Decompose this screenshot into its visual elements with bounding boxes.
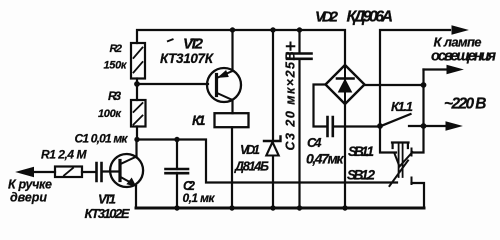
capacitor C3 (electrolytic) — [287, 54, 312, 59]
node K1.1 right — [421, 123, 427, 129]
arrow lamp line 2 — [447, 65, 462, 73]
wire SB1.1 left riser — [380, 126, 396, 153]
wire C2 top branch — [176, 140, 178, 170]
svg-text:КД906А: КД906А — [347, 8, 394, 25]
wire K1 bottom to common rail — [231, 127, 233, 207]
capacitor C2 — [166, 169, 189, 173]
wire VD1 branch top — [272, 30, 274, 141]
wire C4 right plate to K1.1 left terminal — [333, 125, 380, 127]
node K1 bottom on rail — [229, 205, 234, 210]
svg-text:КТ3107К: КТ3107К — [160, 51, 215, 66]
wire C3 branch bottom — [298, 60, 300, 208]
wire bridge left corner to C4 left plate — [314, 85, 328, 127]
switch SB1.1 arm — [395, 152, 413, 167]
wire 220V arrow lead — [424, 125, 447, 127]
wire C3 branch top — [298, 30, 300, 53]
svg-text:R2: R2 — [110, 43, 123, 55]
svg-text:VT1: VT1 — [98, 191, 116, 206]
wire R2 to R3 through node B — [136, 79, 138, 101]
svg-text:двери: двери — [10, 191, 47, 205]
svg-text:SВ1.1: SВ1.1 — [348, 144, 374, 159]
wire VD1 branch bottom — [272, 156, 274, 207]
node collector/R3 — [134, 137, 139, 142]
svg-text:КТ3102Е: КТ3102Е — [85, 206, 130, 221]
svg-text:R1 2,4 М: R1 2,4 М — [41, 147, 88, 161]
wire bridge bottom corner to common rail — [344, 104, 346, 207]
svg-text:100к: 100к — [98, 108, 122, 120]
resistor R1 — [55, 167, 82, 178]
zener diode VD1 — [264, 137, 281, 156]
capacitor C4 — [328, 117, 333, 136]
node C2 bottom on rail — [174, 205, 179, 210]
wire R1 to C1 — [82, 171, 96, 173]
node VD1 on rail — [270, 27, 275, 32]
wire K1.1 right terminal — [409, 125, 424, 127]
relay coil K1 — [215, 113, 249, 127]
wire C1 to VT1 base — [103, 170, 119, 172]
node C3 bottom on rail — [297, 205, 302, 210]
wire top rail right segment (down to K1.1 node, up and right to lamp arrow) — [380, 30, 450, 126]
svg-text:Д814Б: Д814Б — [234, 160, 269, 174]
node C3 on rail — [297, 27, 302, 32]
arrow to door handle — [17, 167, 34, 176]
wire R3 bottom to collector node, across and down to SB1.2 (line A) — [137, 127, 397, 183]
svg-text:VD1: VD1 — [240, 143, 260, 157]
wire VT2 collector to relay K1 — [231, 100, 233, 114]
svg-text:С3 20 мк×25В: С3 20 мк×25В — [284, 52, 298, 151]
bridge rectifier VD2 — [326, 65, 365, 104]
svg-text:К1.1: К1.1 — [391, 99, 413, 114]
node VD1 bottom on rail — [270, 205, 275, 210]
tick before VT2 — [167, 39, 174, 42]
svg-text:0,47мк: 0,47мк — [306, 151, 344, 167]
svg-text:150к: 150к — [104, 60, 128, 72]
node dots — [134, 27, 426, 210]
svg-text:К1: К1 — [192, 113, 206, 128]
node K1.1 left — [377, 123, 383, 129]
wire top rail left segment (R2 top to bridge top corner) — [137, 30, 345, 65]
svg-text:К ручке: К ручке — [8, 178, 52, 192]
pushbutton actuator stems — [399, 143, 403, 177]
node VT2 emitter on rail — [230, 27, 235, 32]
wire C2 bottom branch — [176, 173, 178, 207]
wire VT1 collector riser — [135, 140, 137, 158]
wire 220V branch to arrow — [424, 68, 449, 70]
relay contact K1.1 arm — [381, 114, 411, 126]
node C2 top — [174, 137, 179, 142]
wire door-handle lead to R1 — [33, 171, 55, 173]
arrow 220V line — [446, 122, 461, 130]
capacitor C1 — [97, 163, 102, 181]
switch SB1.2 arm — [390, 161, 409, 187]
node mains upper — [421, 82, 427, 88]
svg-text:С4: С4 — [307, 135, 322, 150]
resistor R3 — [131, 100, 146, 127]
svg-text:С1 0,01 мк: С1 0,01 мк — [75, 131, 129, 145]
wire mains node vertical branch — [422, 70, 424, 127]
transistor VT2 — [207, 68, 241, 102]
pushbutton actuator T-head — [392, 143, 409, 149]
resistor R2 — [131, 43, 145, 79]
wire VT2 emitter to top rail — [231, 30, 233, 71]
wire bridge right corner to mains node — [365, 84, 424, 86]
switch SB1.1 fixed contact hook — [411, 149, 413, 156]
svg-text:R3: R3 — [108, 89, 121, 103]
svg-text:освещения: освещения — [431, 48, 496, 64]
transistor VT1 — [110, 154, 143, 187]
arrow lamp line 1 — [452, 26, 467, 34]
svg-text:SВ1.2: SВ1.2 — [347, 167, 375, 182]
svg-text:~220 В: ~220 В — [444, 96, 487, 113]
wire VT1 emitter drop to rail — [135, 187, 137, 208]
switch SB1.2 fixed contact hook — [411, 178, 413, 185]
svg-text:VT2: VT2 — [183, 36, 204, 53]
node B (R2/R3/VT2 base) — [134, 81, 140, 87]
wire SB1.1 right terminal riser — [412, 126, 424, 153]
C3 plus sign — [287, 43, 295, 50]
svg-text:К лампе: К лампе — [434, 35, 482, 50]
wire common bottom rail — [136, 207, 424, 210]
node bridge bottom on rail — [342, 205, 347, 210]
svg-text:VD2: VD2 — [315, 8, 339, 25]
wire node B to VT2 base — [137, 83, 208, 85]
svg-text:0,1 мк: 0,1 мк — [183, 191, 216, 205]
wire SB1.2 right terminal to rail end — [412, 183, 425, 206]
